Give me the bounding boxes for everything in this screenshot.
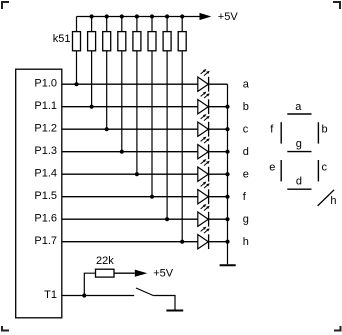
label h: [243, 236, 249, 248]
wire P1.0 to LED: [62, 83, 198, 85]
junction dot R7 / P1.6: [165, 217, 169, 221]
power arrow +5V (bottom): [135, 270, 148, 277]
resistor R5 (k51): [133, 17, 141, 175]
resistor R3 (k51): [103, 17, 111, 130]
svg-text:P1.5: P1.5: [34, 190, 57, 202]
wire P1.6 to LED: [62, 218, 198, 220]
resistor R9 (22k): [96, 269, 115, 277]
ground (switch): [166, 310, 183, 312]
wire LED D8 cathode to bus: [209, 241, 228, 243]
wire LED D3 cathode to bus: [209, 128, 228, 130]
junction dot bus / e: [225, 172, 229, 176]
svg-text:g: g: [296, 138, 302, 150]
power arrow +5V (top): [200, 13, 212, 20]
junction dot R1 / P1.0: [74, 82, 78, 86]
label segment d: [296, 176, 302, 188]
ground (LED bus): [220, 264, 236, 266]
junction dot R2 / P1.1: [90, 105, 94, 109]
svg-text:c: c: [322, 161, 328, 173]
svg-text:f: f: [270, 123, 274, 135]
pin label P1.7: [34, 235, 57, 247]
label +5V (top): [218, 11, 239, 23]
wire P1.5 to LED: [62, 196, 198, 198]
resistor R4 (k51): [118, 17, 126, 152]
junction dot rail / R3: [105, 14, 109, 18]
LED D8 (segment h): [198, 227, 210, 250]
pin label T1: [44, 289, 57, 301]
LED D7 (segment g): [198, 204, 210, 227]
junction dot rail / R8: [180, 14, 184, 18]
junction dot R8 / P1.7: [180, 240, 184, 244]
resistor R6 (k51): [148, 17, 156, 197]
label segment a: [295, 101, 302, 113]
svg-text:e: e: [243, 169, 249, 181]
svg-text:P1.0: P1.0: [34, 78, 57, 90]
wire LED D4 cathode to bus: [209, 151, 228, 153]
segment e: [280, 160, 282, 181]
svg-text:+5V: +5V: [218, 11, 239, 23]
svg-text:c: c: [243, 124, 249, 136]
junction dot rail / R2: [90, 14, 94, 18]
svg-text:d: d: [243, 146, 249, 158]
junction dot R3 / P1.2: [105, 127, 109, 131]
label c: [243, 124, 249, 136]
wire switch to ground: [153, 296, 175, 310]
pin label P1.3: [34, 145, 57, 157]
wire P1.4 to LED: [62, 173, 198, 175]
pin label P1.4: [34, 168, 57, 180]
junction dot bus / c: [225, 127, 229, 131]
svg-text:+5V: +5V: [153, 267, 174, 279]
segment h slash: [318, 190, 335, 206]
wire T1: [62, 295, 134, 297]
label +5V (bottom): [153, 267, 174, 279]
label g: [243, 214, 249, 226]
junction dot R4 / P1.3: [120, 150, 124, 154]
LED D3 (segment c): [198, 114, 210, 137]
pin label P1.1: [34, 100, 57, 112]
junction dot rail / R5: [135, 14, 139, 18]
label segment e: [269, 161, 275, 173]
label k51: [53, 33, 71, 45]
pin label P1.0: [34, 78, 57, 90]
svg-text:h: h: [330, 195, 336, 207]
svg-text:P1.2: P1.2: [34, 123, 57, 135]
junction dot rail / R4: [120, 14, 124, 18]
label 22k: [96, 255, 114, 267]
junction dot R5 / P1.4: [135, 172, 139, 176]
junction dot bus / g: [225, 217, 229, 221]
IC U1 port block: [16, 69, 62, 318]
svg-text:g: g: [243, 214, 249, 226]
junction dot bus / h: [225, 240, 229, 244]
label segment h: [330, 195, 336, 207]
wire LED D1 cathode to bus: [209, 83, 228, 85]
wire LED D2 cathode to bus: [209, 106, 228, 108]
LED D6 (segment f): [198, 182, 210, 205]
svg-text:h: h: [243, 236, 249, 248]
label b: [243, 101, 249, 113]
resistor R8 (k51): [178, 17, 186, 242]
segment d: [287, 188, 311, 190]
label d: [243, 146, 249, 158]
label a: [243, 79, 250, 91]
svg-text:P1.4: P1.4: [34, 168, 57, 180]
svg-text:P1.1: P1.1: [34, 100, 57, 112]
segment a: [287, 113, 311, 115]
pin label P1.6: [34, 213, 57, 225]
wire P1.1 to LED: [62, 106, 198, 108]
svg-text:d: d: [296, 176, 302, 188]
wire P1.7 to LED: [62, 241, 198, 243]
LED D2 (segment b): [198, 92, 210, 115]
resistor R2 (k51): [88, 17, 96, 107]
segment c: [317, 160, 319, 181]
svg-text:b: b: [322, 123, 328, 135]
switch S1 blade: [136, 288, 153, 296]
LED D1 (segment a): [198, 69, 210, 92]
wire LED D6 cathode to bus: [209, 196, 228, 198]
wire T1 branch to R9: [84, 273, 95, 295]
junction dot T1 / R9 branch: [82, 293, 86, 297]
svg-text:P1.6: P1.6: [34, 213, 57, 225]
svg-text:P1.3: P1.3: [34, 145, 57, 157]
resistor R7 (k51): [163, 17, 171, 220]
segment b: [317, 122, 319, 143]
label segment g: [296, 138, 302, 150]
LED D5 (segment e): [198, 159, 210, 182]
svg-text:b: b: [243, 101, 249, 113]
label f: [243, 191, 247, 203]
svg-text:P1.7: P1.7: [34, 235, 57, 247]
junction dot rail / R6: [150, 14, 154, 18]
junction dot R6 / P1.5: [150, 195, 154, 199]
label e: [243, 169, 249, 181]
junction dot bus / f: [225, 195, 229, 199]
label segment c: [322, 161, 328, 173]
pin label P1.5: [34, 190, 57, 202]
junction dot rail / R7: [165, 14, 169, 18]
wire cathode bus: [227, 84, 229, 264]
wire +5V rail: [77, 16, 200, 18]
svg-text:22k: 22k: [96, 255, 114, 267]
svg-text:a: a: [243, 79, 250, 91]
junction dot bus / b: [225, 105, 229, 109]
wire R9 to +5V: [114, 272, 135, 274]
resistor R1 (k51): [73, 17, 81, 85]
segment f: [280, 122, 282, 143]
wire LED D5 cathode to bus: [209, 173, 228, 175]
svg-text:k51: k51: [53, 33, 71, 45]
svg-text:f: f: [243, 191, 247, 203]
wire P1.3 to LED: [62, 151, 198, 153]
label segment b: [322, 123, 328, 135]
junction dot bus / d: [225, 150, 229, 154]
LED D4 (segment d): [198, 137, 210, 160]
segment g: [287, 151, 311, 153]
wire LED D7 cathode to bus: [209, 218, 228, 220]
svg-text:T1: T1: [44, 289, 57, 301]
pin label P1.2: [34, 123, 57, 135]
label segment f: [270, 123, 274, 135]
wire P1.2 to LED: [62, 128, 198, 130]
svg-text:e: e: [269, 161, 275, 173]
svg-text:a: a: [295, 101, 302, 113]
